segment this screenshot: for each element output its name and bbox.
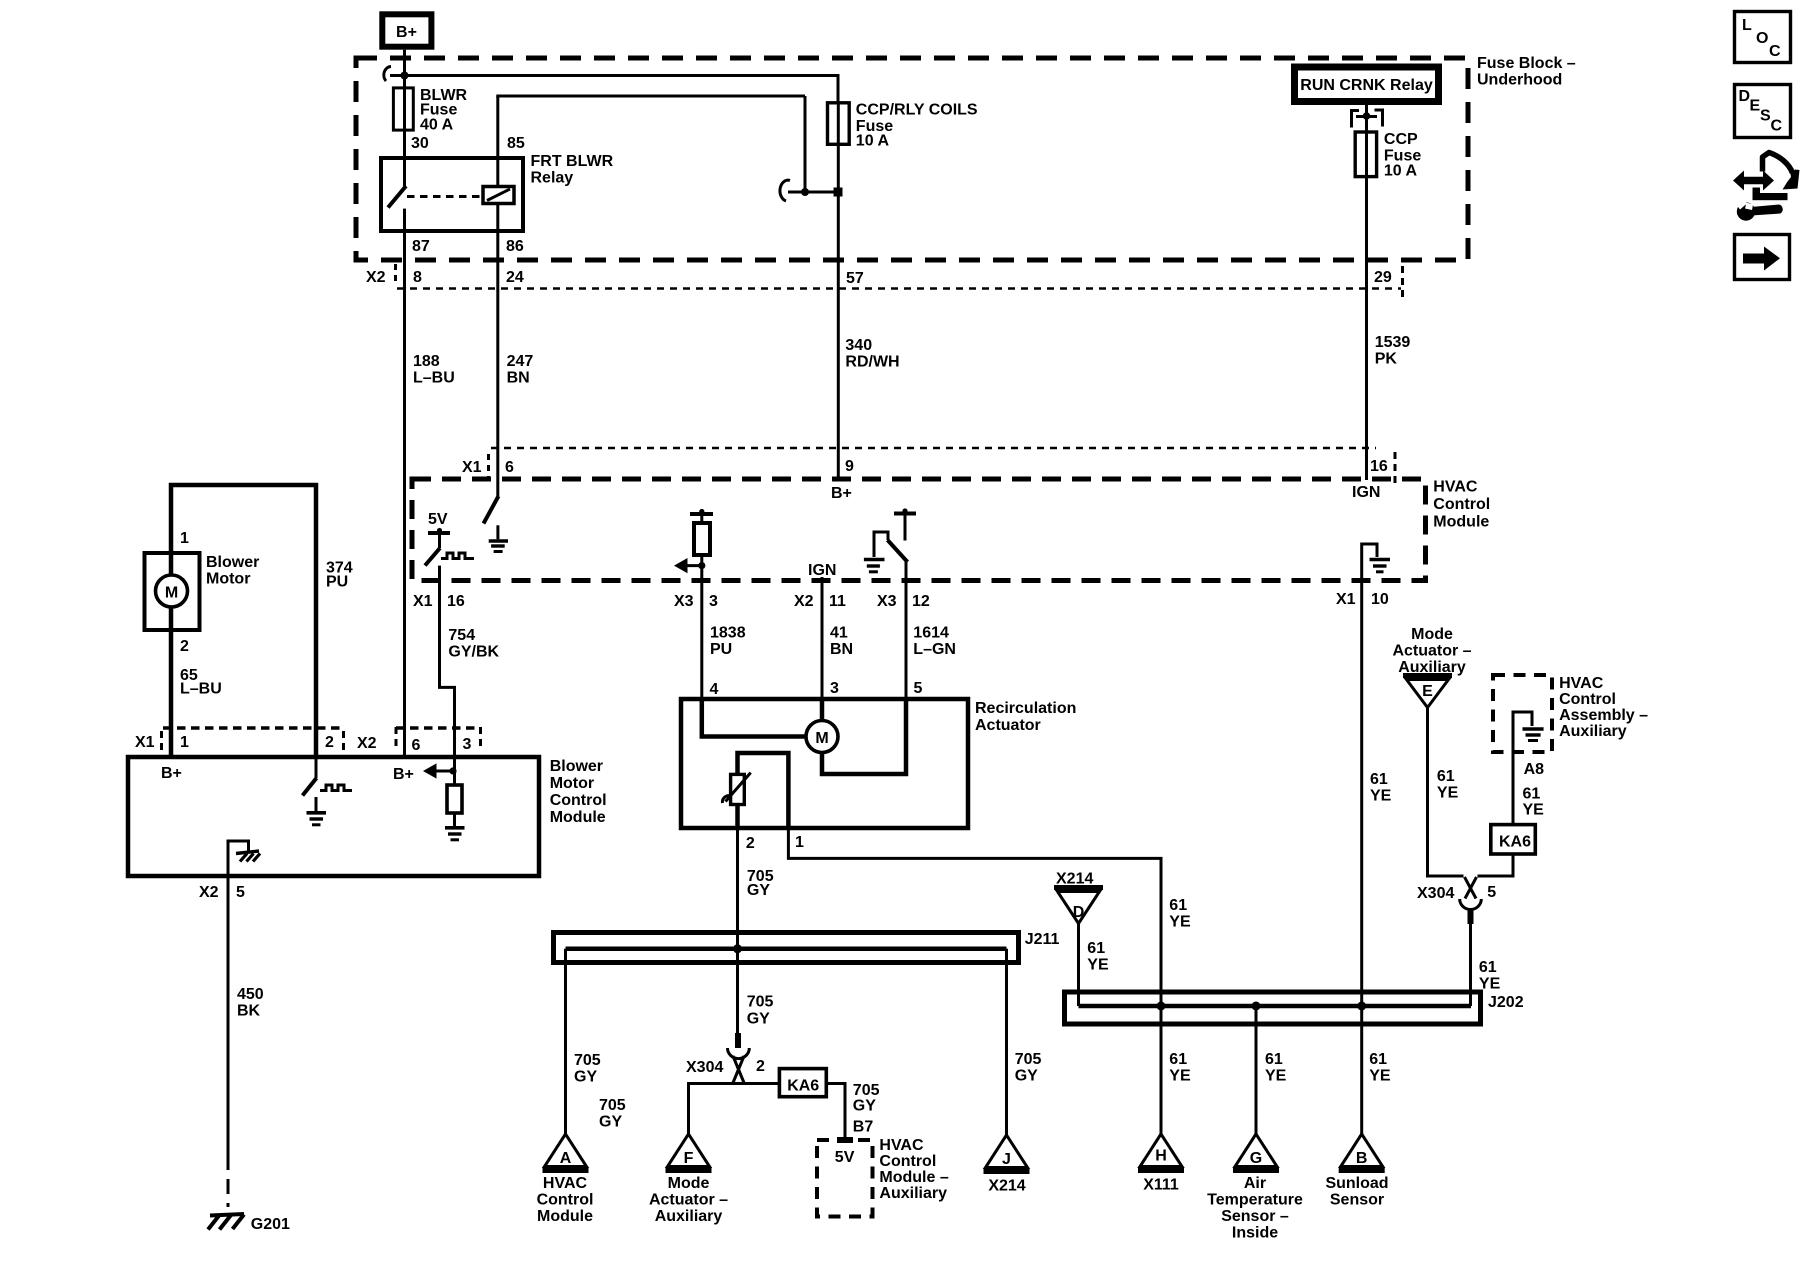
- wire E to X304-5: [1428, 708, 1464, 877]
- svg-text:GY: GY: [599, 1114, 622, 1131]
- connector B+ (battery feed box): [382, 14, 431, 46]
- ground bracket (pin X1-10 internal): [1362, 544, 1390, 580]
- svg-text:Actuator –: Actuator –: [649, 1192, 728, 1209]
- svg-text:B7: B7: [853, 1119, 874, 1136]
- svg-text:Mode: Mode: [668, 1175, 710, 1192]
- svg-text:24: 24: [506, 269, 524, 286]
- icon shortcut (double arrow, outline, wrench): [1733, 153, 1800, 221]
- svg-text:Control: Control: [550, 792, 607, 809]
- svg-text:X1: X1: [462, 459, 482, 476]
- svg-text:PU: PU: [326, 574, 348, 591]
- svg-text:CCP: CCP: [1384, 131, 1418, 148]
- svg-text:Actuator: Actuator: [975, 717, 1041, 734]
- label 1539 PK: [1375, 334, 1411, 368]
- svg-text:X111: X111: [1143, 1177, 1179, 1194]
- svg-text:HVAC: HVAC: [879, 1137, 924, 1154]
- svg-text:188: 188: [413, 353, 440, 370]
- svg-text:HVAC: HVAC: [543, 1175, 588, 1192]
- wire 188 L-BU (x=405) row1 to module: [403, 262, 406, 757]
- svg-text:X1: X1: [1336, 591, 1356, 608]
- svg-text:GY: GY: [747, 1011, 770, 1028]
- svg-text:C: C: [1771, 118, 1783, 135]
- svg-text:705: 705: [599, 1097, 626, 1114]
- svg-text:PK: PK: [1375, 351, 1398, 368]
- label Mode Actuator - Auxiliary (E): [1392, 626, 1471, 676]
- wire 450 BK to G201: [227, 876, 230, 1207]
- icon LOC button: [1735, 12, 1791, 63]
- svg-text:Blower: Blower: [206, 554, 259, 571]
- svg-text:YE: YE: [1369, 1068, 1391, 1085]
- label 1838 PU: [710, 625, 746, 659]
- connector D triangle (X214, pointing down): [1054, 871, 1103, 924]
- connector row X1 HVAC top: [462, 448, 1395, 484]
- module Recirculation Actuator box: [681, 699, 968, 828]
- svg-text:Sunload: Sunload: [1325, 1175, 1388, 1192]
- svg-text:3: 3: [830, 680, 839, 697]
- label Blower Motor: [206, 554, 259, 588]
- node B+ rail junction: [401, 72, 409, 80]
- wire 61 YE (X1-10 through J202 to sunload B): [1360, 580, 1363, 1134]
- svg-text:YE: YE: [1169, 1068, 1191, 1085]
- svg-text:L–BU: L–BU: [180, 681, 222, 698]
- svg-text:X3: X3: [877, 593, 897, 610]
- svg-text:HVAC: HVAC: [1559, 675, 1604, 692]
- node coil feed junction: [801, 188, 809, 196]
- label 705 GY B7: [853, 1082, 880, 1136]
- svg-text:705: 705: [747, 994, 774, 1011]
- svg-text:GY: GY: [853, 1098, 876, 1115]
- source 5V with switch (pin X1-16): [425, 511, 474, 566]
- wire 29 inside fuse block: [1365, 177, 1368, 262]
- svg-text:L: L: [1742, 17, 1752, 34]
- resistor to ground (pin X2-3 internal): [445, 757, 465, 840]
- wire pin X2-11 stub: [821, 577, 824, 580]
- label Recirculation Actuator: [975, 700, 1076, 734]
- label 1614 L-GN: [913, 625, 956, 659]
- node CCP/RLY junction: [834, 188, 843, 197]
- svg-text:Sensor: Sensor: [1330, 1192, 1384, 1209]
- splice KA6 (right): [1491, 825, 1536, 854]
- connector row X2-5 labels: [199, 884, 245, 901]
- svg-text:IGN: IGN: [808, 562, 836, 579]
- svg-text:4: 4: [710, 681, 719, 698]
- svg-text:754: 754: [448, 627, 475, 644]
- svg-text:705: 705: [1015, 1051, 1042, 1068]
- wire 705 GY feed (recirc 2 to X304): [736, 828, 739, 1033]
- svg-text:RUN CRNK Relay: RUN CRNK Relay: [1300, 77, 1433, 94]
- wire recirc pin 4 to motor: [702, 699, 806, 737]
- svg-text:E: E: [1750, 98, 1761, 115]
- svg-text:3: 3: [709, 593, 718, 610]
- label 61 YE (D wire): [1087, 940, 1109, 974]
- connector E triangle (Mode Actuator - Auxiliary, pointing down): [1403, 676, 1452, 708]
- svg-text:A8: A8: [1524, 761, 1545, 778]
- wire recirc pin 5 to motor: [822, 699, 906, 774]
- module Blower Motor Control Module box: [128, 757, 539, 876]
- svg-text:Actuator –: Actuator –: [1392, 643, 1471, 660]
- svg-text:RD/WH: RD/WH: [845, 354, 899, 371]
- wire 340 RD/WH (x=838) row1 to HVAC pin 9: [837, 262, 840, 480]
- svg-text:B+: B+: [396, 24, 417, 41]
- svg-text:X214: X214: [1056, 871, 1093, 888]
- svg-text:YE: YE: [1523, 802, 1545, 819]
- connector B triangle (Sunload Sensor): [1339, 1134, 1385, 1171]
- label 61 YE (X304-5 wire): [1479, 959, 1501, 993]
- svg-text:BK: BK: [237, 1003, 261, 1020]
- wire A8 to KA6: [1512, 752, 1515, 825]
- svg-text:KA6: KA6: [1499, 834, 1531, 851]
- svg-text:X2: X2: [199, 884, 219, 901]
- label 65 L-BU: [180, 667, 222, 698]
- label Blower Motor Control Module: [550, 758, 607, 826]
- svg-text:J211: J211: [1025, 931, 1060, 948]
- label 705 GY (recirc feed): [747, 868, 774, 899]
- label 340 RD/WH: [845, 337, 899, 371]
- label Fuse Block - Underhood: [1477, 55, 1576, 89]
- blower motor box: [145, 553, 200, 630]
- label 61 YE above J202: [1169, 897, 1191, 931]
- label 247 BN: [507, 353, 534, 387]
- svg-text:57: 57: [846, 270, 864, 287]
- label 61 YE (B drop): [1369, 1051, 1391, 1085]
- svg-text:G: G: [1250, 1150, 1262, 1167]
- svg-text:G201: G201: [251, 1216, 290, 1233]
- svg-text:2: 2: [746, 835, 755, 852]
- svg-text:705: 705: [853, 1082, 880, 1099]
- wire 1614 L-GN (X3-12 to recirc 5): [905, 580, 908, 699]
- svg-text:GY/BK: GY/BK: [448, 644, 499, 661]
- svg-text:6: 6: [505, 459, 514, 476]
- wire G drop (J202 to air temp sensor): [1255, 1006, 1258, 1134]
- svg-text:61: 61: [1523, 786, 1541, 803]
- svg-text:X2: X2: [357, 735, 377, 752]
- svg-text:B+: B+: [161, 765, 182, 782]
- svg-text:Auxiliary: Auxiliary: [1559, 723, 1627, 740]
- svg-text:Air: Air: [1244, 1175, 1266, 1192]
- svg-text:Mode: Mode: [1411, 626, 1453, 643]
- svg-text:L–GN: L–GN: [913, 641, 956, 658]
- wire D to J202: [1077, 924, 1080, 1007]
- svg-text:YE: YE: [1087, 957, 1109, 974]
- svg-text:247: 247: [507, 353, 534, 370]
- svg-text:HVAC: HVAC: [1433, 479, 1478, 496]
- svg-text:40 A: 40 A: [420, 116, 454, 133]
- svg-text:D: D: [1739, 88, 1751, 105]
- svg-text:10: 10: [1371, 591, 1389, 608]
- module HVAC Control Module dashed box: [412, 479, 1426, 581]
- svg-text:X2: X2: [794, 593, 814, 610]
- svg-text:CCP/RLY COILS: CCP/RLY COILS: [856, 102, 978, 119]
- wire relay 87 to row: [403, 231, 406, 262]
- svg-text:A: A: [560, 1150, 572, 1167]
- svg-text:Blower: Blower: [550, 758, 603, 775]
- wire pot wiper to pin 1: [738, 753, 789, 828]
- icon forward arrow button: [1735, 235, 1790, 280]
- fuse CCP Fuse 10 A: [1355, 131, 1421, 180]
- svg-text:X3: X3: [674, 593, 694, 610]
- svg-text:5: 5: [236, 884, 245, 901]
- label 61 YE (G drop): [1265, 1051, 1287, 1085]
- svg-text:Assembly –: Assembly –: [1559, 707, 1648, 724]
- svg-text:X304: X304: [1417, 885, 1454, 902]
- svg-text:B: B: [1356, 1150, 1368, 1167]
- label 61 YE on X1-10 wire: [1370, 771, 1392, 805]
- resistor with B+ bar (pin X3-3 internal): [690, 509, 713, 580]
- connector F triangle (Mode Actuator - Auxiliary): [666, 1134, 712, 1171]
- svg-text:Motor: Motor: [550, 775, 594, 792]
- svg-text:B+: B+: [393, 766, 414, 783]
- svg-text:Inside: Inside: [1232, 1225, 1278, 1242]
- switch with PWM and ground (pin X1-2 internal): [303, 757, 353, 825]
- connector J triangle (X214): [984, 1135, 1030, 1172]
- connector X304 pin 5 splice: [1417, 877, 1496, 924]
- label HVAC Control Module (A): [537, 1175, 594, 1225]
- svg-text:Module –: Module –: [879, 1169, 948, 1186]
- svg-text:Underhood: Underhood: [1477, 72, 1562, 89]
- svg-text:29: 29: [1374, 269, 1392, 286]
- svg-text:S: S: [1760, 108, 1771, 125]
- svg-text:E: E: [1422, 683, 1433, 700]
- svg-text:BN: BN: [830, 641, 853, 658]
- label 61 YE (H drop): [1169, 1051, 1191, 1085]
- wire relay 86 to row: [496, 231, 499, 262]
- svg-text:C: C: [1769, 43, 1781, 60]
- svg-text:61: 61: [1087, 940, 1105, 957]
- wire 1838 PU (X3-3 to recirc 4): [700, 580, 703, 699]
- svg-text:YE: YE: [1265, 1068, 1287, 1085]
- relay RUN CRNK Relay: [1295, 67, 1439, 102]
- fuse CCP/RLY COILS Fuse 10 A: [828, 102, 978, 150]
- svg-text:GY: GY: [1015, 1068, 1038, 1085]
- transistor switch with ground (pin X3-12 internal): [864, 508, 916, 580]
- svg-text:H: H: [1155, 1148, 1167, 1165]
- svg-text:Fuse Block –: Fuse Block –: [1477, 55, 1576, 72]
- svg-text:Relay: Relay: [531, 170, 574, 187]
- connector row HVAC bottom labels: [413, 591, 1389, 610]
- svg-text:10 A: 10 A: [1384, 163, 1418, 180]
- label B+ with arrow (pin X2-6 / X2-3 internal): [393, 763, 457, 783]
- label 188 L-BU: [413, 353, 455, 387]
- svg-text:41: 41: [830, 625, 848, 642]
- wire 41 BN (X2-11 to recirc 3): [821, 580, 824, 699]
- wire KA6 to B7 pin: [826, 1084, 845, 1141]
- svg-text:BN: BN: [507, 370, 530, 387]
- svg-text:Temperature: Temperature: [1207, 1192, 1303, 1209]
- label 705 GY (F drop): [599, 1097, 626, 1131]
- fuse BLWR Fuse 40 A: [393, 87, 467, 133]
- svg-text:M: M: [815, 730, 828, 747]
- svg-text:2: 2: [756, 1058, 765, 1075]
- svg-text:YE: YE: [1169, 914, 1191, 931]
- svg-text:Module: Module: [1433, 514, 1489, 531]
- svg-text:16: 16: [447, 593, 465, 610]
- svg-text:X2: X2: [366, 269, 386, 286]
- svg-text:Motor: Motor: [206, 571, 250, 588]
- wire recirc pin 3 to motor: [820, 699, 825, 720]
- chassis ground (pin X2-5 internal): [228, 841, 260, 876]
- module HVAC Control Assembly - Auxiliary dashed box: [1493, 675, 1552, 752]
- label 705 GY (J drop): [1015, 1051, 1042, 1085]
- connector G triangle (Air Temperature Sensor): [1233, 1134, 1279, 1171]
- svg-text:9: 9: [845, 458, 854, 475]
- svg-text:X214: X214: [988, 1178, 1025, 1195]
- svg-text:12: 12: [912, 593, 930, 610]
- svg-text:30: 30: [411, 135, 429, 152]
- wire X304-2 to F and KA6: [689, 1084, 780, 1135]
- svg-text:2: 2: [325, 734, 334, 751]
- bus J202 splice pack: [1065, 992, 1524, 1024]
- motor M blower: [156, 575, 188, 607]
- svg-text:8: 8: [413, 269, 422, 286]
- svg-text:GY: GY: [574, 1069, 597, 1086]
- svg-text:705: 705: [574, 1052, 601, 1069]
- label Air Temperature Sensor - Inside (G): [1207, 1175, 1303, 1242]
- connector row blower module top: [135, 727, 481, 754]
- wire RUN CRNK relay to fuse: [1365, 105, 1368, 133]
- label HVAC Control Module - Auxiliary: [879, 1137, 948, 1202]
- svg-text:1: 1: [180, 734, 189, 751]
- svg-text:450: 450: [237, 986, 264, 1003]
- svg-text:Module: Module: [550, 809, 606, 826]
- svg-text:3: 3: [463, 736, 472, 753]
- connector H triangle (X111): [1138, 1134, 1184, 1171]
- svg-text:61: 61: [1369, 1051, 1387, 1068]
- svg-text:87: 87: [412, 238, 430, 255]
- svg-text:61: 61: [1265, 1051, 1283, 1068]
- svg-text:61: 61: [1169, 1051, 1187, 1068]
- bus J211 splice pack: [554, 931, 1060, 963]
- wire relay 85 riser to coil feed: [496, 96, 805, 192]
- wire 61 YE (recirc 1 to J202): [788, 828, 1161, 1134]
- svg-text:L–BU: L–BU: [413, 370, 455, 387]
- svg-text:340: 340: [845, 337, 872, 354]
- icon DESC button: [1735, 85, 1791, 138]
- svg-text:Control: Control: [1433, 496, 1490, 513]
- label Sunload Sensor (B): [1325, 1175, 1388, 1209]
- svg-text:O: O: [1756, 30, 1768, 47]
- relay FRT BLWR Relay: [381, 153, 614, 231]
- motor M recirculation: [806, 721, 838, 753]
- svg-text:J202: J202: [1488, 994, 1524, 1011]
- svg-text:1614: 1614: [913, 625, 949, 642]
- svg-text:YE: YE: [1437, 785, 1459, 802]
- potentiometer (recirc feedback): [722, 773, 750, 805]
- svg-text:Module: Module: [537, 1208, 593, 1225]
- svg-text:PU: PU: [710, 641, 732, 658]
- wire B+ box to fuse block: [403, 50, 406, 88]
- svg-text:KA6: KA6: [787, 1078, 819, 1095]
- svg-text:86: 86: [506, 238, 524, 255]
- label 61 YE (E wire): [1437, 768, 1459, 802]
- node J202 junction B: [1357, 1002, 1366, 1011]
- wire 57 inside fuse block: [837, 144, 840, 262]
- svg-text:Auxiliary: Auxiliary: [879, 1185, 947, 1202]
- label 705 GY (X304 feed): [747, 994, 774, 1028]
- wire pin X1-16 stub: [438, 566, 441, 580]
- label 754 GY/BK: [448, 627, 499, 661]
- connector A triangle (HVAC Control Module): [543, 1134, 589, 1171]
- module HVAC Control Module - Auxiliary dashed box: [817, 1140, 873, 1217]
- svg-text:6: 6: [412, 737, 421, 754]
- wire 754 GY/BK jog (X1-16 to blower module X2-3): [440, 580, 455, 757]
- fuse block underhood dashed box: [356, 58, 1468, 260]
- svg-text:Auxiliary: Auxiliary: [655, 1208, 723, 1225]
- node J211 feed junction: [733, 944, 742, 953]
- wire X304-5 to J202: [1469, 924, 1472, 1006]
- svg-text:X1: X1: [135, 734, 155, 751]
- svg-text:X304: X304: [686, 1059, 723, 1076]
- svg-text:61: 61: [1437, 768, 1455, 785]
- svg-text:J: J: [1002, 1151, 1011, 1168]
- connector in-line brackets under RUN CRNK relay: [1352, 110, 1383, 128]
- svg-text:Sensor –: Sensor –: [1221, 1208, 1289, 1225]
- svg-text:Control: Control: [879, 1153, 936, 1170]
- ground G201 chassis: [208, 1214, 290, 1233]
- svg-text:FRT BLWR: FRT BLWR: [531, 153, 614, 170]
- svg-text:F: F: [684, 1150, 694, 1167]
- wire KA6 to X304-5: [1478, 854, 1514, 876]
- arrow left (pin X3-3 signal): [674, 558, 705, 573]
- wire coil feed jog with curl: [780, 180, 838, 201]
- svg-text:61: 61: [1169, 897, 1187, 914]
- wire 247 BN (x=498) row1 to HVAC box: [496, 262, 499, 479]
- ground inside assembly aux: [1513, 712, 1544, 752]
- label Mode Actuator - Auxiliary (F): [649, 1175, 728, 1225]
- svg-text:M: M: [165, 585, 178, 602]
- wire B+ rail (y=75.5) with curl: [384, 67, 838, 103]
- svg-text:5V: 5V: [428, 511, 448, 528]
- svg-text:YE: YE: [1370, 788, 1392, 805]
- svg-text:61: 61: [1479, 959, 1497, 976]
- wire fuse to relay pin 30: [403, 130, 406, 158]
- svg-text:5: 5: [1487, 884, 1496, 901]
- wire 1539 PK (x=1366) row1 to HVAC pin 16: [1365, 262, 1368, 480]
- svg-text:1: 1: [180, 530, 189, 547]
- svg-text:X1: X1: [413, 593, 433, 610]
- svg-text:D: D: [1073, 904, 1085, 921]
- svg-text:GY: GY: [747, 882, 770, 899]
- label 374 PU: [326, 560, 353, 591]
- svg-text:61: 61: [1370, 771, 1388, 788]
- svg-text:B+: B+: [831, 485, 852, 502]
- node J202 junction H: [1157, 1002, 1166, 1011]
- connector X304 pin 2 splice: [686, 1033, 765, 1084]
- svg-text:5V: 5V: [835, 1149, 855, 1166]
- svg-text:5: 5: [914, 680, 923, 697]
- label HVAC Control Module: [1433, 479, 1490, 531]
- svg-text:85: 85: [507, 135, 525, 152]
- svg-text:Recirculation: Recirculation: [975, 700, 1076, 717]
- svg-text:16: 16: [1370, 458, 1388, 475]
- svg-text:1539: 1539: [1375, 334, 1411, 351]
- splice KA6 (bottom): [779, 1069, 826, 1097]
- wire blower motor feed loop: [171, 485, 316, 757]
- label HVAC Control Assembly - Auxiliary: [1559, 675, 1648, 740]
- svg-text:YE: YE: [1479, 976, 1501, 993]
- connector row X2 fuse block bottom: [366, 264, 1403, 299]
- switch to ground (pin 6 internal): [484, 479, 509, 552]
- svg-text:10 A: 10 A: [856, 133, 890, 150]
- label 450 BK: [237, 986, 264, 1020]
- label 705 GY (A drop): [574, 1052, 601, 1086]
- label 61 YE (A8 wire): [1523, 786, 1545, 819]
- svg-text:IGN: IGN: [1352, 484, 1380, 501]
- wire A drop (J211 to HVAC control module triangle): [564, 949, 567, 1134]
- svg-text:2: 2: [180, 638, 189, 655]
- svg-text:Control: Control: [537, 1192, 594, 1209]
- svg-text:Control: Control: [1559, 691, 1616, 708]
- node J202 junction G: [1252, 1002, 1261, 1011]
